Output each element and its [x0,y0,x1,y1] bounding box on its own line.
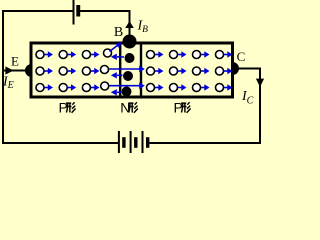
svg-text:P: P [174,100,183,116]
label kanji kei (middle) [128,102,138,112]
hole drift line across N region row3 [109,82,145,89]
svg-text:C: C [237,49,246,64]
holes left P region row2 [36,66,109,76]
battery V1 short thick plate [76,5,80,17]
svg-text:B: B [114,25,123,40]
holes right P region row2 [147,67,233,75]
label kanji kei (right) [181,102,191,112]
junction divider right (N/P) [140,44,142,96]
collector contact dot [233,62,240,75]
electron 1 in N region [111,53,135,63]
wire: base lead vertical [129,10,131,38]
battery V2 cell3 short plate [146,137,149,148]
svg-text:E: E [11,53,19,68]
transistor body outline [31,43,233,97]
junction divider left (P/N) [119,44,121,96]
emitter contact dot [25,64,31,77]
battery V2 cell2 short plate [134,137,137,148]
hole recombination arrow to base (diagonal) [110,42,122,51]
battery V2 cell3 long plate [142,131,144,153]
wire: left vertical from top battery loop [2,10,4,143]
svg-text:N: N [120,100,130,116]
wire: top horizontal to battery V1 [2,10,74,12]
svg-text:P: P [59,100,68,116]
holes left P region row1 [36,49,112,59]
electron 3 in N region [111,87,132,97]
wire: bottom horizontal right from battery V2 [149,142,260,144]
label kanji kei (left) [66,102,76,112]
battery V1 long plate [73,0,75,25]
arrowhead current IB (up) [125,21,134,28]
battery V2 cell1 long plate [118,131,120,153]
holes right P region row1 [147,51,233,59]
wire: emitter lead horizontal [3,70,27,72]
wire: right vertical collector return [259,69,261,145]
holes left P region row3 [36,82,109,92]
arrowhead current IE (right) [5,66,13,74]
electron 2 in N region [111,71,133,81]
base contact dot [123,35,137,49]
wire: top horizontal from battery V1 to base lead corner [80,10,131,12]
battery V2 cell2 long plate [130,131,132,153]
arrowhead current IC (down) [256,79,264,87]
wire: collector lead horizontal [238,68,261,70]
hole drift line across N region row2 [109,66,145,73]
wire: bottom horizontal left to battery V2 [2,142,119,144]
battery V2 cell1 short plate [122,137,125,148]
holes right P region row3 [147,84,233,92]
